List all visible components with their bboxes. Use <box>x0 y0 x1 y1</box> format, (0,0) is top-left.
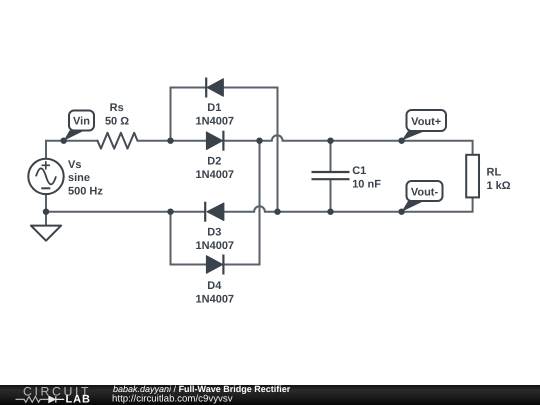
svg-text:sine: sine <box>68 172 90 184</box>
svg-text:500 Hz: 500 Hz <box>68 186 103 198</box>
node cap top dot <box>327 138 333 144</box>
node Vout+ flag dot <box>398 138 404 144</box>
wire D4 cathode up to Vout+ row (vertical x=259) <box>223 141 259 265</box>
logo CIRCUIT text <box>23 385 91 399</box>
wire row C left: source bottom junction to D3 <box>46 211 205 213</box>
node Vin dot <box>61 138 67 144</box>
node flag Vout+ <box>402 110 446 141</box>
node Vout- flag dot <box>398 209 404 215</box>
svg-text:1N4007: 1N4007 <box>196 116 235 128</box>
node bridge-left bottom dot <box>167 209 173 215</box>
svg-text:1N4007: 1N4007 <box>196 240 235 252</box>
footer bar <box>0 385 540 405</box>
node cap bottom dot <box>327 209 333 215</box>
ground <box>31 226 61 241</box>
wire source top to row B <box>46 141 98 159</box>
capacitor C1 plates <box>312 172 350 179</box>
node Vout- bridge dot <box>274 209 280 215</box>
node flag Vin <box>64 111 94 141</box>
wire node to D1 (up left vertical, row A) <box>171 88 207 141</box>
svg-text:1N4007: 1N4007 <box>196 293 235 305</box>
diode D1 (pointing left) <box>206 78 223 98</box>
diode D2 (pointing right) <box>206 131 223 151</box>
diode D3 (pointing left) <box>205 202 224 222</box>
svg-text:Vs: Vs <box>68 159 81 171</box>
svg-text:50 Ω: 50 Ω <box>105 116 129 128</box>
svg-text:1 kΩ: 1 kΩ <box>487 180 511 192</box>
wire D3 to RL bottom with hop over vertical at x=259 <box>224 197 473 211</box>
node flag Vout- <box>402 181 443 212</box>
wire D2 to RL top with hop over vertical at x=277 <box>223 135 472 155</box>
svg-text:D1: D1 <box>207 102 221 114</box>
svg-text:http://circuitlab.com/c9vyvsv: http://circuitlab.com/c9vyvsv <box>112 394 233 405</box>
svg-text:babak.dayyani / Full-Wave Brid: babak.dayyani / Full-Wave Bridge Rectifi… <box>113 384 291 394</box>
voltage source Vs circle <box>28 159 63 194</box>
svg-text:10 nF: 10 nF <box>352 179 381 191</box>
footer credit line <box>113 384 291 394</box>
svg-text:Vout-: Vout- <box>411 186 439 198</box>
wire capacitor bottom lead <box>330 180 332 212</box>
svg-text:D3: D3 <box>207 226 221 238</box>
svg-text:Vout+: Vout+ <box>411 116 441 128</box>
diode D4 (pointing right) <box>206 255 223 275</box>
svg-text:Rs: Rs <box>110 102 124 114</box>
resistor RL box <box>466 155 479 198</box>
svg-text:D2: D2 <box>207 155 221 167</box>
resistor Rs zigzag <box>98 133 138 149</box>
wire source bottom to ground <box>45 194 47 226</box>
svg-text:C1: C1 <box>352 165 366 177</box>
logo resistor-diode doodle <box>16 396 65 402</box>
node bridge-left top dot <box>167 138 173 144</box>
wire capacitor top lead <box>330 141 332 171</box>
svg-text:Vin: Vin <box>73 116 90 128</box>
svg-text:RL: RL <box>487 167 502 179</box>
wire node to D4 (down left vertical, row D) <box>171 212 207 265</box>
svg-text:D4: D4 <box>207 280 222 292</box>
svg-text:LAB: LAB <box>66 393 91 405</box>
footer url line <box>112 394 233 405</box>
node source return dot <box>43 209 49 215</box>
node Vout+ bridge dot <box>256 138 262 144</box>
wire Rs to D2 <box>138 140 207 142</box>
logo LAB text <box>66 393 91 405</box>
wire D1 anode down to Vout- row (vertical x=277) <box>223 88 277 212</box>
svg-text:1N4007: 1N4007 <box>196 169 235 181</box>
junction dots <box>43 138 405 215</box>
